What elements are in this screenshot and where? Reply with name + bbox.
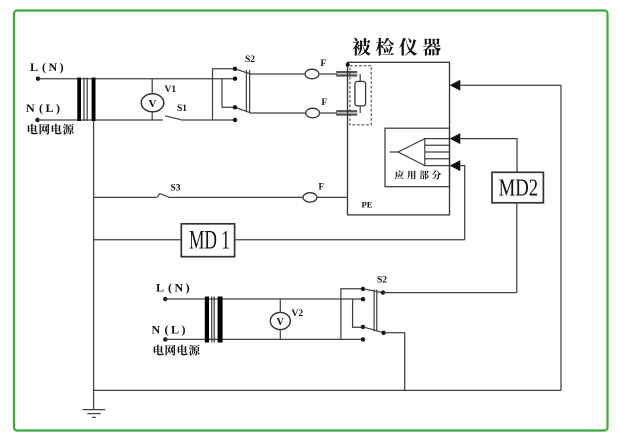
node S2b contact 3	[361, 325, 365, 329]
wire fuse F1 to pin	[319, 73, 337, 75]
switch S2 arm bottom	[237, 108, 251, 113]
voltmeter V1	[141, 79, 164, 120]
node S2b contact 2	[361, 297, 365, 301]
switch S2 gang link bars	[246, 70, 249, 112]
applied-part lead lines	[425, 139, 450, 166]
voltmeter V2	[270, 299, 290, 339]
wire left rail	[93, 121, 95, 410]
DUT box	[348, 62, 450, 215]
applied-part cone	[390, 139, 425, 166]
node S2 contact 2	[233, 77, 237, 81]
label yingyong-bufen (applied part)	[395, 170, 441, 179]
plug pin L	[336, 71, 357, 77]
arrow into enclosure	[450, 80, 461, 91]
switch S2b arm top	[364, 289, 383, 293]
node S2b output top	[381, 290, 385, 294]
switch S3	[157, 194, 170, 198]
svg-text:F: F	[319, 182, 325, 192]
node S2b contact 4	[361, 337, 365, 341]
switch S2b gang link bars	[374, 290, 377, 332]
node S2 contact 3	[233, 105, 237, 109]
wire PE from left rail	[94, 196, 157, 198]
ground	[83, 410, 106, 418]
svg-text:MD 1: MD 1	[189, 226, 230, 255]
svg-text:V1: V1	[165, 85, 177, 95]
wire crossover inner bottom (L to third contact)	[353, 299, 362, 327]
meter MD1 box	[181, 224, 234, 257]
wire L bottom	[165, 298, 362, 300]
node N top (dot)	[35, 118, 39, 122]
applied part box	[385, 128, 450, 187]
wire S2b bottom output to bottom rail	[384, 333, 405, 391]
svg-text:PE: PE	[362, 200, 373, 210]
arrow into applied part upper	[450, 133, 461, 144]
label dianwang-dianyuan bottom	[154, 345, 200, 356]
svg-text:N: N	[26, 101, 35, 115]
node L bottom (dot)	[163, 297, 167, 301]
svg-text:F: F	[321, 58, 327, 68]
wire fuse F3 to DUT	[317, 196, 348, 198]
node S2b output bottom	[382, 331, 386, 335]
svg-text:N: N	[152, 323, 161, 337]
wire S2b top output to MD2	[383, 292, 517, 294]
dashed input impedance box	[350, 66, 371, 125]
svg-text:MD2: MD2	[499, 176, 539, 202]
transformer T2	[205, 297, 223, 343]
wire S3 to fuse F3	[170, 196, 304, 198]
svg-text:F: F	[322, 97, 328, 107]
svg-text:(N): (N)	[168, 281, 192, 295]
wire left rail to MD1	[94, 239, 182, 241]
switch S2 arm top	[237, 69, 251, 74]
svg-text:(N): (N)	[42, 60, 66, 74]
svg-text:S2: S2	[245, 55, 255, 65]
svg-text:(L): (L)	[165, 323, 189, 337]
node S2 contact 4	[233, 118, 237, 122]
meter MD2 box	[492, 172, 543, 203]
node L top (dot)	[36, 77, 40, 81]
wire crossover outer bottom (N to top contact)	[341, 289, 362, 340]
arrow into applied part lower	[450, 160, 461, 171]
wire applied part upper to MD2	[460, 139, 518, 173]
wire fuse F2 to pin	[320, 112, 337, 114]
wire enclosure probe to right rail	[460, 84, 562, 86]
switch S2b arm bottom	[364, 327, 383, 332]
svg-text:L: L	[156, 281, 164, 295]
fuse F2	[306, 108, 320, 118]
title beijian-yiqi (device under test)	[352, 38, 441, 56]
svg-text:(L): (L)	[39, 101, 63, 115]
svg-text:S1: S1	[177, 104, 187, 114]
wire crossover inner (L to third contact)	[222, 79, 235, 108]
wire right rail	[560, 85, 562, 390]
svg-text:S3: S3	[171, 184, 181, 194]
wire pin L to resistor	[359, 74, 361, 81]
node N bottom (dot)	[163, 337, 167, 341]
label dianwang-dianyuan top	[28, 124, 74, 135]
wire resistor to pin N	[359, 106, 361, 113]
wire S2 bottom output to fuse	[250, 112, 306, 114]
fuse F3	[303, 193, 317, 202]
wire MD1 to applied part	[235, 239, 465, 241]
svg-text:V2: V2	[292, 309, 304, 319]
node S2 contact 1	[233, 67, 237, 71]
wire N top left segment	[38, 119, 164, 121]
svg-text:V: V	[149, 98, 157, 110]
switch S1	[165, 116, 181, 120]
wire N top right segment	[181, 119, 235, 121]
svg-text:L: L	[30, 60, 38, 74]
wire S2 top output to fuse	[250, 73, 306, 75]
node DUT corner junction	[346, 63, 350, 67]
svg-text:V: V	[277, 317, 285, 328]
wire L top	[38, 78, 235, 80]
wire crossover outer (N to top contact)	[213, 69, 236, 120]
wire bottom rail	[94, 389, 561, 391]
wire MD2 to S2 bottom switch	[516, 203, 518, 293]
fuse F1	[305, 69, 319, 79]
plug pin N	[336, 110, 357, 116]
resistor R (input impedance)	[355, 81, 366, 106]
wire applied part lower down to MD1	[460, 166, 465, 240]
svg-text:S2: S2	[377, 276, 387, 286]
wire N bottom	[165, 338, 362, 340]
transformer T1	[77, 78, 95, 122]
node S2b contact 1	[361, 287, 365, 291]
